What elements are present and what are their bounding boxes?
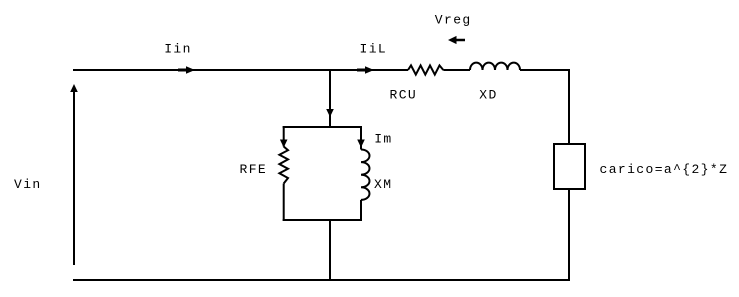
inductor XD bbox=[470, 63, 520, 70]
wire shunt to bottom rail bbox=[329, 220, 331, 280]
resistor RFE bbox=[279, 147, 288, 184]
load resistor (carico) bbox=[554, 144, 585, 189]
svg-text:Im: Im bbox=[374, 132, 392, 147]
resistor RCU bbox=[408, 65, 443, 74]
wire load to bottom rail bbox=[568, 189, 570, 281]
current arrow IiL bbox=[357, 66, 374, 74]
inductor XM bbox=[361, 150, 370, 200]
current arrow Im branch (down) bbox=[357, 126, 365, 150]
svg-text:RCU: RCU bbox=[390, 88, 418, 103]
voltage arrow Vreg (pointing left) bbox=[448, 36, 465, 44]
svg-text:Vin: Vin bbox=[14, 177, 42, 192]
svg-text:XM: XM bbox=[374, 177, 392, 192]
wire top rail left segment bbox=[73, 69, 408, 71]
voltage arrow Vin (input port, pointing up) bbox=[70, 84, 78, 265]
svg-text:IiL: IiL bbox=[360, 42, 388, 57]
svg-text:XD: XD bbox=[479, 88, 497, 103]
svg-text:RFE: RFE bbox=[240, 162, 268, 177]
wire shunt bottom bar bbox=[283, 219, 362, 221]
current arrow RFE branch (down) bbox=[280, 126, 288, 148]
wire shunt top bar bbox=[283, 126, 362, 128]
svg-text:Iin: Iin bbox=[164, 42, 192, 57]
wire between RCU and XD bbox=[443, 69, 470, 71]
current arrow Iin bbox=[178, 66, 195, 74]
wire top rail right segment bbox=[520, 69, 570, 71]
svg-text:carico=a^{2}*Z: carico=a^{2}*Z bbox=[600, 162, 729, 177]
svg-text:Vreg: Vreg bbox=[435, 13, 472, 28]
wire XM branch bottom bbox=[360, 200, 362, 221]
wire bottom rail bbox=[73, 279, 570, 281]
wire shunt tap vertical with current arrow (down) bbox=[326, 70, 334, 127]
wire RFE branch bottom bbox=[283, 184, 285, 222]
wire right drop to load bbox=[568, 69, 570, 144]
